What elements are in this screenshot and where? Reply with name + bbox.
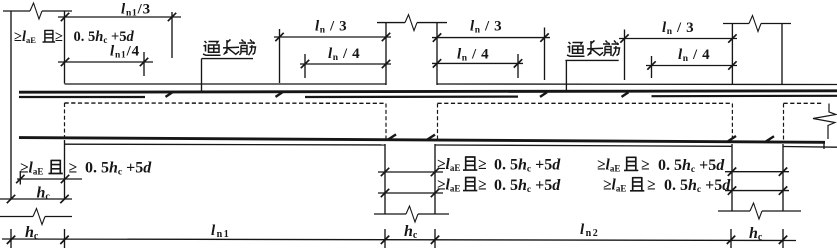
middle column left face	[385, 23, 387, 85]
label tongchangjin (continuous bar) span 2	[565, 41, 619, 91]
bottom chain tick at left col inner	[64, 229, 66, 248]
witness line l_n/4 left of right column	[651, 56, 653, 78]
cut line above middle column	[377, 22, 405, 24]
svg-text:≥: ≥	[478, 177, 487, 194]
dimension line l_n/3 right of middle column	[432, 37, 550, 39]
top bar cutoff tick at x=544.5	[540, 92, 547, 97]
beam bottom edge right overhang	[783, 146, 837, 149]
top continuous bar (first layer)	[19, 91, 837, 92]
hanger bar (dashed) span 1	[65, 102, 387, 104]
bottom bar hook at middle column left face	[388, 134, 396, 139]
middle column right face	[436, 23, 438, 85]
cut line above right column	[723, 23, 749, 25]
bottom bar hook at right column right face	[766, 136, 774, 141]
witness line at l_n1/4 cutoff	[143, 52, 145, 76]
break line right column	[718, 210, 750, 212]
witness line l_n/4 right of middle column	[517, 54, 519, 78]
break line middle column	[374, 213, 406, 215]
svg-text:≥: ≥	[647, 177, 656, 194]
beam top edge span 2 and right overhang	[437, 83, 837, 86]
dimension line l_n/4 right of middle column	[432, 62, 523, 64]
bottom chain tick at mid col left	[384, 229, 386, 248]
right column left face	[731, 24, 733, 86]
dimension line l_n1/4 (left support)	[58, 61, 153, 63]
witness line l_n/4 left of middle column	[304, 54, 306, 78]
dimension line l_n1/3 (left support)	[58, 16, 181, 18]
left column outer face	[10, 11, 12, 199]
top bar cutoff tick at x=626	[622, 92, 629, 97]
bottom chain tick at right col right	[782, 229, 784, 248]
dim line under left column (anchorage row)	[17, 178, 82, 180]
cut line above left column	[3, 10, 30, 12]
top bar cutoff tick at x=170	[166, 92, 173, 97]
top bar cutoff tick at x=280	[276, 92, 283, 97]
top second-layer bar at middle support	[305, 95, 518, 98]
dim line h_c left column	[0, 198, 72, 200]
beam top edge span 1	[65, 83, 387, 85]
top second-layer bar at left support	[19, 96, 145, 98]
hanger bar (dashed) span 2	[438, 102, 733, 104]
right column right face	[781, 24, 783, 86]
dimension line l_n/3 left of right column	[619, 38, 737, 40]
beam bottom edge span 1	[65, 143, 386, 146]
svg-text:≥: ≥	[69, 160, 78, 177]
break line left column	[0, 216, 33, 218]
witness line l_n/3 right of middle column	[544, 28, 546, 81]
dimension line l_n/3 left of middle column	[274, 36, 391, 38]
anchorage dim row 1 at right column	[725, 171, 789, 173]
bottom dimension chain line	[2, 239, 796, 241]
svg-text:≥: ≥	[478, 156, 487, 173]
witness line l_n/3 left of right column	[624, 30, 626, 81]
witness line l_n/3 left of middle column	[279, 29, 281, 83]
svg-text:≥: ≥	[641, 156, 650, 173]
anchorage dim row 2 at right column	[725, 190, 789, 192]
left column inner face	[64, 11, 66, 84]
bottom bar hook at middle column right face	[427, 135, 435, 140]
bottom chain tick at left col outer	[10, 229, 12, 248]
anchorage dim row 2 at middle column	[378, 192, 443, 194]
dimension line l_n/4 left of middle column	[300, 63, 391, 65]
bottom bar hook at right column left face	[728, 136, 736, 141]
top second-layer bar at right support	[652, 95, 837, 98]
label tongchangjin (continuous bar) span 1	[202, 40, 256, 92]
witness line at l_n1/3 cutoff	[171, 12, 173, 58]
beam break (cut) symbol at right edge	[813, 104, 836, 140]
hanger bar (dashed) right overhang	[784, 102, 824, 104]
beam bottom edge span 2	[435, 145, 732, 146]
anchorage dim row 1 at middle column	[378, 171, 443, 173]
bottom chain tick at right col left	[730, 229, 732, 248]
svg-text:≥: ≥	[55, 29, 63, 45]
bottom bar	[19, 138, 825, 143]
bottom chain tick at mid col right	[434, 229, 436, 248]
dimension line l_n/4 left of right column	[646, 65, 737, 67]
